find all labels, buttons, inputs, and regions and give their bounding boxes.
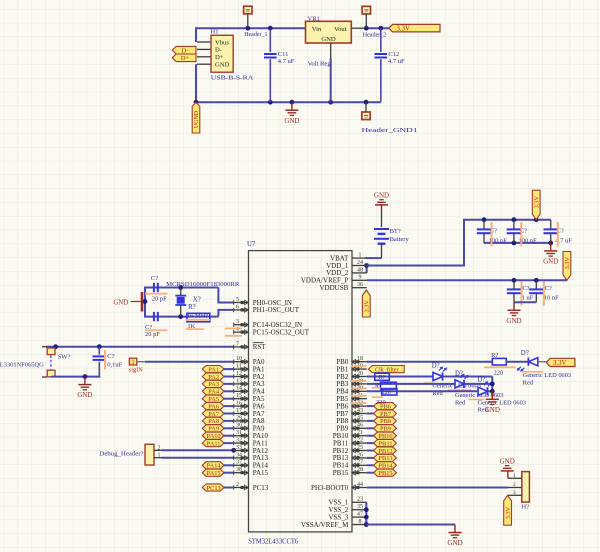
led D? (PB3) [448, 371, 504, 407]
svg-text:20 pF: 20 pF [152, 296, 167, 303]
svg-text:VR1: VR1 [308, 15, 320, 22]
svg-text:1: 1 [359, 253, 362, 259]
svg-text:4: 4 [236, 327, 239, 333]
pin 42 PB6 (right) [336, 401, 367, 411]
port PB9 [367, 425, 397, 433]
junction cap rail 3.3V [534, 217, 539, 222]
pin 1 VBAT (right) [330, 253, 367, 263]
junction RST / SW [53, 344, 58, 349]
pin 48 VDD_2 (right) [326, 267, 367, 277]
wire SW gnd rail [51, 376, 100, 378]
svg-text:C?: C? [151, 275, 158, 282]
port PA6 [202, 403, 233, 411]
svg-text:Clk_filter: Clk_filter [375, 366, 398, 373]
capacitor C? 20pF (bottom) [145, 312, 168, 338]
svg-text:GND: GND [321, 36, 336, 43]
svg-text:GND: GND [500, 458, 515, 466]
ground GND (VSS) [454, 525, 456, 533]
led D? (to 3.3V) [518, 350, 572, 386]
pin 30 PA9 (left) [234, 423, 265, 433]
wire crystal top branch [145, 287, 218, 289]
junction VSS_3 [364, 515, 369, 520]
wire led tie vertical [488, 390, 492, 392]
port PC13 [202, 484, 233, 492]
port PA3 [202, 380, 233, 388]
pin 18 PB0 (right) [336, 356, 367, 366]
wire PB2 to led [367, 376, 433, 378]
wire decoupling bottom rail [484, 242, 551, 244]
svg-text:Vout: Vout [334, 26, 347, 33]
pin 47 VSS_3 (right) [328, 512, 366, 522]
pin 36 VDDUSB (right) [320, 282, 367, 292]
capacitor C? 100nF (2) [507, 220, 537, 247]
power port 3.3V (vertical, VDDUSB) [362, 290, 370, 317]
junction GND rail / C11 [268, 100, 273, 105]
svg-text:D?: D? [478, 377, 486, 384]
svg-text:C11: C11 [278, 51, 289, 58]
junction Vout / C12 [378, 26, 383, 31]
junction VSS_2 [364, 507, 369, 512]
svg-text:3.3V: 3.3V [505, 506, 512, 519]
pin 19 PB1 (right) [336, 364, 367, 374]
svg-text:3: 3 [513, 490, 516, 496]
wire crystal left tie [144, 287, 146, 318]
svg-text:PB15: PB15 [378, 470, 392, 477]
marker orange PB stub [351, 380, 367, 382]
capacitor C? 100nF (1) [477, 220, 507, 247]
port UGND [192, 102, 200, 133]
port PA10 [202, 432, 233, 440]
junction VSSA [364, 522, 369, 527]
svg-text:GND: GND [284, 117, 299, 125]
svg-text:PH1-OSC_OUT: PH1-OSC_OUT [253, 306, 300, 314]
svg-text:47: 47 [357, 512, 363, 518]
wire sigIN to PA0 [145, 361, 234, 363]
wire VSS to gnd [366, 524, 455, 526]
port PA2 [202, 373, 233, 381]
svg-text:6: 6 [236, 304, 239, 310]
svg-text:Volt Reg: Volt Reg [308, 60, 332, 67]
pin 38 PA15 (left) [234, 467, 269, 477]
pin 45 PB8 (right) [336, 415, 367, 425]
regulator VR1 [306, 15, 352, 67]
svg-text:GND: GND [215, 62, 230, 69]
svg-text:SW?: SW? [58, 354, 71, 361]
svg-text:U7: U7 [247, 241, 256, 248]
resistor R? (stack 1) [375, 373, 390, 381]
svg-text:PA15: PA15 [207, 470, 221, 477]
svg-text:8: 8 [359, 519, 362, 525]
svg-text:48: 48 [357, 267, 363, 273]
mcu U7 STM32L433CCT6 body [249, 251, 353, 532]
svg-text:GND: GND [506, 317, 521, 325]
wire decoupling top rail [463, 219, 551, 221]
capacitor C? 4.7uF [544, 220, 573, 247]
port PB15 [367, 469, 397, 477]
junction crystal gnd [143, 299, 148, 304]
junction cap rail 1 [482, 217, 487, 222]
svg-text:Red: Red [455, 399, 466, 406]
svg-text:VDDUSB: VDDUSB [320, 284, 349, 292]
port PA9 [202, 425, 233, 433]
wire Vout to 3.3V [366, 27, 389, 29]
svg-text:36: 36 [357, 282, 363, 288]
svg-text:PC15-OSC32_OUT: PC15-OSC32_OUT [253, 328, 310, 336]
junction led tie PB4 [490, 389, 495, 394]
svg-text:BT?: BT? [390, 228, 401, 235]
header Header_GND1 [362, 102, 418, 134]
ground GND (1uF/10nF) [513, 302, 515, 310]
port PB10 [367, 432, 397, 440]
svg-text:STM32L433CCT6: STM32L433CCT6 [248, 539, 299, 546]
port PB8 [367, 417, 397, 425]
svg-text:R?: R? [379, 375, 386, 381]
junction bottom rail C [512, 241, 517, 246]
pin 40 PB4 (right) [336, 386, 367, 396]
pin 17 PA7 (left) [234, 408, 265, 418]
pin 21 PB10 (right) [333, 430, 367, 440]
junction crystal top [178, 285, 183, 290]
power port 3.3V (vertical, VDDA) [563, 252, 571, 281]
wire debug pin1 to PA13 [162, 457, 234, 459]
wire RST net [46, 346, 234, 348]
capacitor C12 4.7uF [375, 28, 406, 102]
port PA5 [202, 395, 233, 403]
junction led tie PB3 [490, 382, 495, 387]
ground GND (reset) [84, 377, 86, 385]
pin 14 PA4 (left) [234, 386, 265, 396]
pin 37 PA14 (left) [234, 460, 269, 470]
port PB14 [367, 462, 397, 470]
ground GND (leds) [491, 391, 493, 399]
svg-text:C?: C? [545, 285, 552, 292]
svg-text:3.3V: 3.3V [553, 360, 566, 367]
led D? (PB2) [424, 363, 481, 397]
svg-text:H1: H1 [211, 29, 219, 36]
svg-text:1 uF: 1 uF [522, 295, 534, 302]
pin 31 PA10 (left) [234, 430, 269, 440]
svg-text:3.3V: 3.3V [397, 26, 410, 33]
pin 24 VDD_1 (right) [326, 260, 367, 270]
svg-text:35: 35 [357, 504, 363, 510]
pin 44 PH3-BOOT0 (right) [311, 482, 367, 492]
svg-text:7: 7 [236, 341, 239, 347]
svg-text:C?: C? [522, 285, 529, 292]
power port 3.3V (vertical, boot header) [504, 495, 512, 525]
pin 43 PB7 (right) [336, 408, 367, 418]
marker orange PB stub [351, 402, 367, 404]
pin 16 PA6 (left) [234, 401, 265, 411]
port PB13 [367, 454, 397, 462]
junction VDDA / C 10nF [534, 278, 539, 283]
svg-text:2: 2 [158, 445, 161, 451]
pin 4 PC15-OSC32_OUT (left) [234, 327, 310, 337]
svg-text:GND: GND [77, 391, 92, 399]
junction RST / C [97, 344, 102, 349]
svg-text:USB-B-S-RA: USB-B-S-RA [211, 74, 254, 81]
pin 32 PA11 (left) [234, 438, 269, 448]
power port 3.3V (regulator output) [389, 24, 440, 32]
svg-text:VSSA/VREF_M: VSSA/VREF_M [301, 521, 349, 529]
svg-text:GND: GND [447, 539, 462, 547]
junction VDDA / C 1uF [512, 278, 517, 283]
wire PH0-OSC_IN [217, 302, 233, 304]
pin 8 VSSA/VREF_M (right) [301, 519, 367, 529]
resistor 220 (stack 3) [372, 389, 397, 406]
pin 5 PH0-OSC_IN (left) [234, 297, 292, 307]
capacitor C? 10nF [529, 280, 559, 306]
pin 10 PA0 (left) [234, 356, 265, 366]
pin 11 PA1 (left) [234, 364, 265, 374]
marker orange PC14 [225, 327, 242, 329]
port PA1 [202, 366, 233, 374]
power port 3.3V (vertical, above caps) [532, 190, 540, 220]
svg-text:1: 1 [132, 360, 135, 366]
junction cap rail 2 [512, 217, 517, 222]
svg-text:2: 2 [513, 482, 516, 488]
pin 9 VDDA/VREF_P (right) [301, 275, 367, 285]
port PA11 [202, 440, 233, 448]
svg-text:D?: D? [455, 371, 463, 378]
port D- [172, 46, 196, 54]
svg-text:UGND: UGND [194, 110, 200, 128]
ground GND (decoupling caps) [550, 243, 552, 251]
pin 7 RST (left) [234, 341, 267, 351]
header Debug_Header? [100, 444, 162, 465]
pin 25 PB12 (right) [333, 445, 367, 455]
wire caps bottom tie [514, 301, 536, 303]
wire VDD_1/VDD_2 tie [366, 266, 368, 273]
junction top rail / C11 [268, 26, 273, 31]
junction GND rail / UGND [194, 100, 199, 105]
svg-text:L3301NF065QG: L3301NF065QG [0, 362, 44, 369]
header Header_2 [362, 6, 386, 38]
junction top rail / Header_1 [245, 26, 250, 31]
power port GND (crystal, bar style) [114, 292, 143, 312]
port PA8 [202, 417, 233, 425]
pin 3 PC14-OSC32_IN (left) [234, 319, 302, 329]
svg-text:MCRSD16000F183000RR: MCRSD16000F183000RR [166, 281, 240, 288]
svg-text:PA11: PA11 [207, 440, 221, 447]
pin 15 PA5 (left) [234, 393, 265, 403]
wire bottom GND rail [196, 101, 381, 103]
wire R220 to LED [506, 361, 528, 363]
port PA7 [202, 410, 233, 418]
pin 27 PB14 (right) [333, 460, 367, 470]
svg-text:D+: D+ [215, 54, 224, 61]
port PB12 [367, 447, 397, 455]
svg-text:C12: C12 [388, 51, 399, 58]
wire crystal bottom branch [145, 316, 218, 318]
svg-text:R?: R? [188, 304, 196, 311]
junction Vout / Header_2 [364, 26, 369, 31]
battery BT? [374, 228, 409, 244]
svg-text:D+: D+ [181, 55, 190, 62]
wire top rail Vbus net [196, 27, 306, 29]
port D+ [172, 54, 196, 62]
marker orange PB stub [351, 387, 367, 389]
svg-text:sigIN: sigIN [129, 366, 143, 373]
wire led to tie (PB3) [465, 383, 492, 385]
svg-text:16 MHz: 16 MHz [187, 313, 209, 320]
port PA15 [202, 469, 233, 477]
svg-text:3: 3 [236, 319, 239, 325]
port PB11 [367, 440, 397, 448]
junction sw rail / gnd [83, 374, 88, 379]
svg-text:3.3V: 3.3V [364, 300, 371, 313]
port Clk_filter [368, 366, 404, 373]
wire PH3-BOOT0 to header [367, 487, 508, 489]
crystal X? 16MHz [175, 288, 200, 317]
svg-text:9: 9 [359, 275, 362, 281]
junction crystal bottom [178, 314, 183, 319]
junction VDD_1 [364, 263, 369, 268]
junction GND rail / VR1 GND [328, 100, 333, 105]
pin 13 PA3 (left) [234, 378, 265, 388]
svg-text:5: 5 [236, 297, 239, 303]
pin 46 PB9 (right) [336, 423, 367, 433]
wire PB0 to R220 [367, 361, 493, 363]
resistor R? 220 [484, 352, 515, 376]
svg-text:D-: D- [215, 47, 222, 54]
svg-text:23: 23 [357, 497, 363, 503]
wire PB3 to led [367, 383, 456, 385]
pin 6 PH1-OSC_OUT (left) [234, 304, 300, 314]
wire PB4 to led [367, 390, 479, 392]
pin 28 PB15 (right) [333, 467, 367, 477]
svg-text:X?: X? [193, 296, 201, 303]
svg-text:C?: C? [107, 353, 114, 360]
pin VR1 GND [330, 43, 332, 58]
svg-text:1: 1 [158, 453, 161, 459]
capacitor C? 20pF (top) [145, 275, 168, 303]
pin 35 VSS_2 (right) [328, 504, 366, 514]
svg-text:Red: Red [523, 379, 534, 386]
svg-text:10 nF: 10 nF [544, 295, 559, 302]
svg-text:4.7 uF: 4.7 uF [278, 58, 295, 65]
svg-text:1: 1 [513, 473, 516, 479]
pin 26 PB13 (right) [333, 452, 367, 462]
junction bottom rail gnd [548, 241, 553, 246]
junction GND rail / Header_GND1 [364, 100, 369, 105]
pin 20 PB2 (right) [336, 371, 367, 381]
svg-text:Header_GND1: Header_GND1 [362, 128, 418, 134]
junction GND rail / GND symbol [290, 100, 295, 105]
svg-text:Vbus: Vbus [215, 39, 229, 46]
pin 41 PB5 (right) [336, 393, 367, 403]
wire battery top lead [381, 205, 383, 210]
port PA14 [202, 462, 233, 470]
svg-text:PH3-BOOT0: PH3-BOOT0 [311, 484, 349, 492]
port PB7 [367, 410, 397, 418]
header H? (boot) [508, 472, 529, 511]
svg-text:2: 2 [236, 482, 239, 488]
svg-text:PC13: PC13 [253, 484, 269, 492]
svg-text:4.7 uF: 4.7 uF [388, 58, 405, 65]
svg-text:PB15: PB15 [333, 469, 349, 477]
pin 2 PC13 (left) [234, 482, 269, 492]
marker orange PC15 [225, 335, 242, 337]
svg-text:3.3V: 3.3V [564, 256, 571, 269]
svg-text:220: 220 [376, 399, 386, 406]
wire VDDA net [367, 279, 567, 281]
capacitor C? 0.1uF [93, 347, 123, 377]
svg-text:Generic LED 0603: Generic LED 0603 [523, 372, 572, 379]
wire VR1 GND to rail [330, 58, 332, 103]
resistor R? 1K [186, 313, 210, 330]
testpoint sigIN [129, 358, 145, 373]
pin VR1 Vout [351, 27, 366, 29]
port PA4 [202, 388, 233, 396]
svg-text:GND: GND [114, 300, 129, 307]
switch SW? L3301NF065QG [0, 347, 70, 377]
pin 39 PB3 (right) [336, 378, 367, 388]
svg-text:24: 24 [357, 260, 363, 266]
svg-text:Header_2: Header_2 [363, 33, 386, 39]
svg-text:220: 220 [382, 390, 391, 396]
pin 34 PA13 (left) [234, 452, 269, 462]
svg-text:0,1uF: 0,1uF [107, 361, 122, 368]
pin 33 PA12 (left) [234, 445, 269, 455]
header Header_1 [244, 6, 268, 38]
marker orange PB stub [351, 395, 367, 397]
svg-text:PA15: PA15 [253, 469, 269, 477]
pin 22 PB11 (right) [333, 438, 367, 448]
svg-text:Battery: Battery [390, 236, 410, 243]
svg-text:220: 220 [494, 369, 504, 376]
svg-text:PC13: PC13 [207, 485, 221, 492]
wire H1 GND drop [195, 64, 197, 103]
svg-text:RST: RST [253, 343, 267, 351]
svg-text:GND: GND [374, 192, 389, 200]
marker orange PB stub [351, 365, 367, 367]
wire VDD net to caps [367, 265, 464, 267]
pin 12 PA2 (left) [234, 371, 265, 381]
svg-text:D?: D? [432, 363, 440, 370]
led D? (PB4) [468, 377, 526, 414]
wire H1 Vbus riser [195, 27, 197, 42]
wire PH1-OSC_OUT [217, 309, 233, 311]
svg-text:20 pF: 20 pF [145, 331, 160, 338]
wire battery to VBAT [381, 244, 383, 258]
svg-text:Vin: Vin [312, 26, 322, 33]
svg-text:D?: D? [521, 350, 529, 357]
resistor R? (stack 2) [372, 382, 397, 389]
capacitor C11 4.7uF [264, 28, 295, 102]
connector H1 USB-B-S-RA [197, 29, 254, 82]
svg-text:Header_1: Header_1 [244, 32, 267, 38]
svg-text:Debug_Header?: Debug_Header? [100, 451, 144, 458]
wire VSS tie [365, 502, 367, 524]
wire debug pin2 to PA12 [162, 449, 234, 451]
pin 29 PA8 (left) [234, 415, 265, 425]
svg-text:3.3V: 3.3V [533, 196, 540, 209]
svg-text:GND: GND [485, 406, 500, 414]
port PB6 [367, 403, 397, 411]
power port 3.3V (led) [546, 358, 575, 367]
ground GND (USB rail) [291, 102, 293, 110]
capacitor C? 1uF [507, 280, 534, 306]
svg-text:GND: GND [543, 258, 558, 266]
svg-text:H?: H? [522, 504, 530, 511]
pin led to port [538, 361, 547, 363]
svg-text:R?: R? [491, 352, 498, 359]
pin 23 VSS_1 (right) [328, 497, 366, 507]
junction PA12 [231, 448, 236, 453]
wire led to tie (PB2) [443, 376, 493, 378]
